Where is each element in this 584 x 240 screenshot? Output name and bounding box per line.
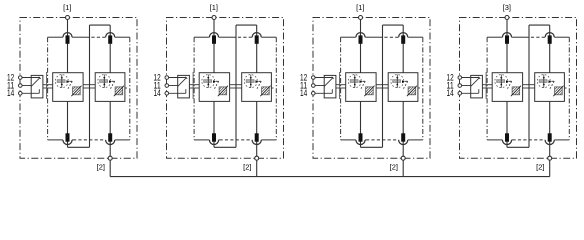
wire: terminal 12 xyxy=(315,77,333,79)
wire: common PE bus [2] xyxy=(110,176,550,178)
linkage frame bottom edge xyxy=(341,139,356,141)
disconnector actuation axis with arrows xyxy=(543,75,545,88)
svg-text:[1]: [1] xyxy=(210,3,218,12)
wire: bottom series bridge xyxy=(68,146,90,148)
disconnect direction arrow xyxy=(67,80,70,83)
linkage frame left edge (dash-dot) xyxy=(340,37,342,140)
terminal 14 xyxy=(458,92,462,96)
disconnect direction arrow xyxy=(549,80,552,83)
disconnector actuation axis with arrows xyxy=(500,75,502,88)
svg-text:14: 14 xyxy=(300,88,307,98)
terminal 14 xyxy=(165,92,169,96)
svg-text:14: 14 xyxy=(447,88,454,98)
disconnector actuation axis with arrows xyxy=(207,75,209,88)
disconnector fuse bar xyxy=(539,80,547,83)
disconnected-state dashed stroke xyxy=(509,80,512,82)
disconnect direction arrow xyxy=(360,80,363,83)
plug contact top (socket + pin) xyxy=(252,33,261,38)
svg-text:[1]: [1] xyxy=(356,3,364,12)
linkage frame right edge (dash-dot) xyxy=(129,37,131,140)
wire: [2] node drop to PE bus xyxy=(256,158,258,176)
node [2] xyxy=(108,156,112,160)
protection module (varistor with thermal disconnector) xyxy=(346,73,376,102)
disconnector: dashed circle xyxy=(348,75,361,88)
plug contact bottom (socket + pin) xyxy=(356,140,365,145)
protection module (varistor with thermal disconnector) xyxy=(95,73,125,102)
monitoring link wires (aux contact to module 1) xyxy=(189,84,199,86)
disconnected-state dashed stroke xyxy=(405,80,408,82)
wire: bottom series bridge xyxy=(507,146,529,148)
protection module (varistor with thermal disconnector) xyxy=(53,73,83,102)
monitoring link wires (aux contact to module 1) xyxy=(482,84,492,86)
terminal 11 xyxy=(19,84,23,88)
node [1] xyxy=(359,16,363,20)
wire: [2] node drop to PE bus xyxy=(402,158,404,176)
wire: bridge down to module 2 xyxy=(402,25,404,73)
varistor (hatched) xyxy=(260,86,270,97)
monitoring link wires (module 1 to module 2) xyxy=(83,84,95,86)
disconnector: dashed circle xyxy=(537,75,550,88)
terminal 12 xyxy=(165,76,169,80)
monitoring stub right of module 2 xyxy=(125,87,127,89)
disconnector actuation axis with arrows xyxy=(354,75,356,88)
wire: terminal 11 xyxy=(22,85,31,87)
disconnected-state dashed stroke xyxy=(362,80,365,82)
wire: module 2 bottom to [2] node xyxy=(256,101,258,158)
wire: bridge down to module 2 xyxy=(256,25,258,73)
plug contact top (socket + pin) xyxy=(106,33,115,38)
wire: module 2 bottom to [2] node xyxy=(109,101,111,158)
terminal 11 xyxy=(458,84,462,88)
wire: [2] node drop to PE bus xyxy=(549,158,551,176)
disconnector fuse bar xyxy=(204,80,212,83)
disconnected-state dashed stroke xyxy=(258,80,261,82)
wire: module 1 bottom to series bridge xyxy=(360,101,362,147)
svg-text:[2]: [2] xyxy=(536,162,544,171)
varistor (hatched) xyxy=(114,86,124,97)
linkage side bar xyxy=(485,72,487,99)
wire: terminal 14 xyxy=(169,92,186,94)
disconnector fuse bar xyxy=(350,80,358,83)
svg-text:[3]: [3] xyxy=(503,3,511,12)
linkage frame right edge (dash-dot) xyxy=(568,37,570,140)
linkage frame bottom edge xyxy=(48,139,63,141)
wire: [3] drop to module 1 xyxy=(506,19,508,72)
wire: bottom series bridge xyxy=(361,146,383,148)
disconnect direction arrow xyxy=(256,80,259,83)
protection module (varistor with thermal disconnector) xyxy=(199,73,229,102)
terminal 12 xyxy=(19,76,23,80)
disconnector fuse bar xyxy=(100,80,108,83)
contact: fixed 14 leg xyxy=(185,89,187,93)
disconnector: dashed circle xyxy=(244,75,257,88)
svg-text:[2]: [2] xyxy=(390,162,398,171)
linkage frame left edge (dash-dot) xyxy=(193,37,195,140)
linkage frame bottom edge xyxy=(194,139,209,141)
remote signalling contact box xyxy=(178,75,190,98)
linkage side bar xyxy=(192,72,194,99)
terminal 11 xyxy=(312,84,316,88)
monitoring link wires (aux contact to module 1) xyxy=(43,84,53,86)
wire: centre series link xyxy=(382,25,384,147)
varistor (hatched) xyxy=(511,86,521,97)
wire: module 2 bottom to [2] node xyxy=(549,101,551,158)
wire: bridge down to module 2 xyxy=(549,25,551,73)
svg-text:[1]: [1] xyxy=(63,3,71,12)
plug contact bottom (socket + pin) xyxy=(209,140,218,145)
svg-text:[2]: [2] xyxy=(243,162,251,171)
disconnector fuse bar xyxy=(393,80,401,83)
disconnected-state dashed stroke xyxy=(112,80,115,82)
node [1] xyxy=(66,16,70,20)
wire: module 2 bottom to [2] node xyxy=(402,101,404,158)
linkage frame left edge (dash-dot) xyxy=(486,37,488,140)
linkage side bar xyxy=(46,72,48,99)
wire: terminal 11 xyxy=(315,85,324,87)
plug contact top (socket + pin) xyxy=(209,33,218,38)
wire: top series bridge xyxy=(90,24,111,26)
plug contact bottom (socket + pin) xyxy=(502,140,511,145)
contact: fixed 14 leg xyxy=(331,89,333,93)
wire: terminal 12 xyxy=(462,77,480,79)
linkage frame top edge xyxy=(194,36,209,38)
wire: centre series link xyxy=(528,25,530,147)
contact: changeover blade xyxy=(471,78,480,87)
linkage frame top edge xyxy=(487,36,502,38)
disconnector: dashed circle xyxy=(391,75,404,88)
disconnected-state dashed stroke xyxy=(551,80,554,82)
plug contact top (socket + pin) xyxy=(63,33,72,38)
terminal 11 xyxy=(165,84,169,88)
protection module (varistor with thermal disconnector) xyxy=(492,73,522,102)
monitoring stub right of module 2 xyxy=(418,87,420,89)
plug contact top (socket + pin) xyxy=(545,33,554,38)
disconnector actuation axis with arrows xyxy=(103,75,105,88)
wire: [1] drop to module 1 xyxy=(360,19,362,72)
disconnector actuation axis with arrows xyxy=(61,75,63,88)
protection module (varistor with thermal disconnector) xyxy=(388,73,418,102)
linkage side bar xyxy=(339,72,341,99)
node [2] xyxy=(255,156,259,160)
plug contact bottom (socket + pin) xyxy=(106,140,115,145)
plug contact bottom (socket + pin) xyxy=(545,140,554,145)
node [2] xyxy=(548,156,552,160)
terminal 12 xyxy=(458,76,462,80)
contact: fixed 14 leg xyxy=(478,89,480,93)
monitoring stub right of module 2 xyxy=(271,87,273,89)
wire: [2] node drop to PE bus xyxy=(109,158,111,176)
disconnector fuse bar xyxy=(497,80,505,83)
plug contact bottom (socket + pin) xyxy=(399,140,408,145)
block 2 enclosure (dash-dot outline) xyxy=(167,18,284,159)
varistor (hatched) xyxy=(407,86,417,97)
varistor (hatched) xyxy=(364,86,374,97)
disconnected-state dashed stroke xyxy=(216,80,219,82)
disconnector: dashed circle xyxy=(495,75,508,88)
wire: terminal 14 xyxy=(22,92,39,94)
block 1 enclosure (dash-dot outline) xyxy=(20,18,137,159)
wire: terminal 12 xyxy=(169,77,187,79)
varistor (hatched) xyxy=(71,86,81,97)
block 3 enclosure (dash-dot outline) xyxy=(313,18,430,159)
plug contact bottom (socket + pin) xyxy=(63,140,72,145)
wire: module 1 bottom to series bridge xyxy=(213,101,215,147)
terminal 14 xyxy=(312,92,316,96)
remote signalling contact box xyxy=(324,75,336,98)
disconnector fuse bar xyxy=(246,80,254,83)
wire: centre series link xyxy=(89,25,91,147)
disconnect direction arrow xyxy=(213,80,216,83)
terminal 14 xyxy=(19,92,23,96)
linkage frame bottom edge xyxy=(487,139,502,141)
disconnected-state dashed stroke xyxy=(69,80,72,82)
monitoring link wires (module 1 to module 2) xyxy=(523,84,535,86)
block 4 enclosure (dash-dot outline) xyxy=(460,18,577,159)
wire: module 1 bottom to series bridge xyxy=(506,101,508,147)
linkage frame top edge xyxy=(341,36,356,38)
disconnector: dashed circle xyxy=(202,75,215,88)
plug contact top (socket + pin) xyxy=(356,33,365,38)
varistor (hatched) xyxy=(553,86,563,97)
disconnect direction arrow xyxy=(109,80,112,83)
monitoring link wires (aux contact to module 1) xyxy=(336,84,346,86)
wire: terminal 12 xyxy=(22,77,40,79)
disconnector actuation axis with arrows xyxy=(396,75,398,88)
disconnector: dashed circle xyxy=(98,75,111,88)
wire: top series bridge xyxy=(529,24,550,26)
svg-text:14: 14 xyxy=(154,88,161,98)
svg-text:[2]: [2] xyxy=(97,162,105,171)
disconnector actuation axis with arrows xyxy=(250,75,252,88)
wire: bottom series bridge xyxy=(214,146,236,148)
monitoring link wires (module 1 to module 2) xyxy=(376,84,388,86)
disconnect direction arrow xyxy=(506,80,509,83)
protection module (varistor with thermal disconnector) xyxy=(242,73,272,102)
contact: changeover blade xyxy=(178,78,187,87)
linkage frame right edge (dash-dot) xyxy=(422,37,424,140)
disconnector fuse bar xyxy=(57,80,65,83)
wire: centre series link xyxy=(235,25,237,147)
monitoring stub right of module 2 xyxy=(564,87,566,89)
disconnect direction arrow xyxy=(402,80,405,83)
monitoring link wires (module 1 to module 2) xyxy=(230,84,242,86)
wire: bridge down to module 2 xyxy=(109,25,111,73)
remote signalling contact box xyxy=(31,75,43,98)
plug contact top (socket + pin) xyxy=(399,33,408,38)
wire: terminal 14 xyxy=(462,92,479,94)
node [1] xyxy=(212,16,216,20)
plug contact top (socket + pin) xyxy=(502,33,511,38)
linkage frame top edge xyxy=(48,36,63,38)
wire: terminal 11 xyxy=(169,85,178,87)
plug contact bottom (socket + pin) xyxy=(252,140,261,145)
linkage frame left edge (dash-dot) xyxy=(47,37,49,140)
contact: fixed 14 leg xyxy=(38,89,40,93)
node [3] xyxy=(505,16,509,20)
terminal 12 xyxy=(312,76,316,80)
wire: [1] drop to module 1 xyxy=(67,19,69,72)
contact: changeover blade xyxy=(324,78,333,87)
wire: [1] drop to module 1 xyxy=(213,19,215,72)
linkage frame right edge (dash-dot) xyxy=(275,37,277,140)
wire: terminal 14 xyxy=(315,92,332,94)
contact: changeover blade xyxy=(31,78,40,87)
disconnector: dashed circle xyxy=(55,75,68,88)
wire: terminal 11 xyxy=(462,85,471,87)
wire: top series bridge xyxy=(236,24,257,26)
wire: top series bridge xyxy=(383,24,404,26)
varistor (hatched) xyxy=(218,86,228,97)
remote signalling contact box xyxy=(471,75,483,98)
protection module (varistor with thermal disconnector) xyxy=(535,73,565,102)
wire: module 1 bottom to series bridge xyxy=(67,101,69,147)
node [2] xyxy=(401,156,405,160)
svg-text:14: 14 xyxy=(7,88,14,98)
